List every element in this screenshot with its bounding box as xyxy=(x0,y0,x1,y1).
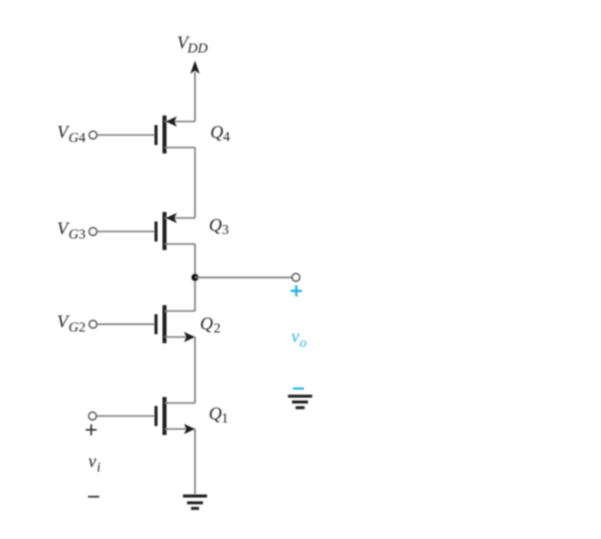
svg-text:Q: Q xyxy=(200,314,213,334)
node output junction xyxy=(191,274,198,281)
svg-text:G4: G4 xyxy=(69,131,86,146)
power VDD label xyxy=(177,32,208,56)
svg-text:Q: Q xyxy=(209,215,222,235)
transistor Q4 (PMOS) xyxy=(156,116,230,154)
wire Q1 source to ground xyxy=(194,429,196,494)
label vo minus xyxy=(293,387,304,389)
svg-text:1: 1 xyxy=(221,411,228,426)
label vi plus xyxy=(86,424,97,435)
transistor Q3 (PMOS) xyxy=(156,212,229,250)
wire Q4 drain to Q3 source xyxy=(194,148,196,219)
label vi xyxy=(88,451,101,475)
terminal VG3 xyxy=(57,219,97,243)
svg-text:v: v xyxy=(291,326,299,346)
svg-text:3: 3 xyxy=(222,223,229,238)
svg-text:G3: G3 xyxy=(69,228,86,243)
svg-text:v: v xyxy=(88,451,96,471)
svg-text:4: 4 xyxy=(223,130,230,145)
svg-text:o: o xyxy=(300,336,307,351)
terminal VG4 xyxy=(57,122,97,146)
svg-text:i: i xyxy=(97,460,101,475)
wire Q3 drain through node to Q2 drain xyxy=(194,244,196,311)
terminal vo circle xyxy=(292,274,300,282)
terminal vi circle xyxy=(89,412,97,420)
power VDD arrow xyxy=(191,62,199,122)
label vi minus xyxy=(88,496,99,498)
wire vi gate xyxy=(96,415,154,417)
wire VG4 gate xyxy=(97,134,154,136)
label vo plus xyxy=(291,285,302,296)
wire VG3 gate xyxy=(97,231,154,233)
ground (source of Q1) xyxy=(183,496,207,508)
ground (output) xyxy=(288,396,312,408)
svg-text:Q: Q xyxy=(209,404,222,424)
svg-text:2: 2 xyxy=(214,321,221,336)
wire VG2 gate xyxy=(97,323,154,325)
svg-text:DD: DD xyxy=(187,42,208,57)
transistor Q2 (NMOS) xyxy=(156,305,221,343)
wire output xyxy=(195,276,292,278)
transistor Q1 (NMOS) xyxy=(156,397,228,435)
svg-text:Q: Q xyxy=(210,122,223,142)
terminal VG2 xyxy=(57,312,97,336)
wire Q2 source to Q1 drain xyxy=(194,337,196,403)
label vo xyxy=(291,326,306,351)
svg-text:G2: G2 xyxy=(69,320,86,335)
